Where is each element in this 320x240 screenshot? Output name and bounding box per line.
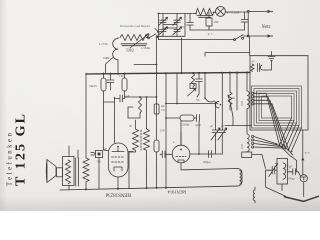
capacitor C5 bbox=[241, 12, 248, 30]
svg-text:μF: μF bbox=[221, 125, 224, 128]
coil L2 can bbox=[184, 169, 242, 187]
mains lead bottom bbox=[249, 35, 270, 37]
loop antenna turn 1 bbox=[252, 86, 302, 128]
svg-text:μμF: μμF bbox=[125, 95, 130, 98]
coil L6 bottom bbox=[253, 187, 255, 203]
wire bottom link bbox=[190, 29, 245, 31]
coil L5 bbox=[283, 163, 286, 179]
svg-text:50kΩ: 50kΩ bbox=[126, 49, 134, 53]
earth symbol bbox=[284, 196, 318, 201]
svg-text:0,05: 0,05 bbox=[241, 144, 244, 149]
tube V2 cathode bbox=[114, 167, 122, 171]
capacitor C12 bbox=[209, 151, 212, 158]
coil tap loops L3 bbox=[252, 92, 254, 105]
wire vertical x166 bbox=[165, 73, 167, 188]
note arrow bbox=[155, 29, 159, 33]
wire trimmer to earth bbox=[266, 170, 287, 196]
tube V3 REN1914 envelope bbox=[172, 145, 190, 163]
loop antenna turn 3 bbox=[257, 91, 297, 123]
wire plug to chassis bbox=[249, 37, 251, 56]
output transformer box bbox=[63, 157, 75, 186]
capacitor cathode bypass box bbox=[96, 151, 103, 158]
variable capacitor C3b bbox=[173, 27, 182, 37]
wire R1 leads bbox=[104, 73, 115, 151]
svg-text:Kurzwellen und Bastler: Kurzwellen und Bastler bbox=[119, 24, 151, 28]
wire ground link bbox=[265, 61, 272, 70]
wire grid V3 bbox=[180, 121, 182, 145]
trimpot marks bbox=[188, 84, 197, 97]
svg-text:T 125 GL: T 125 GL bbox=[14, 112, 29, 186]
svg-text:3Ω45: 3Ω45 bbox=[89, 84, 97, 88]
variable capacitor C2 bbox=[159, 14, 168, 26]
tube V3 anode bbox=[180, 132, 182, 145]
output transformer core bbox=[76, 158, 79, 186]
svg-text:1M: 1M bbox=[119, 74, 124, 78]
resistor R2 oval bbox=[122, 78, 127, 91]
IF transformer winding a bbox=[129, 120, 139, 189]
wire V3 anode out bbox=[190, 153, 223, 155]
capacitor C6 bbox=[114, 95, 124, 102]
switch S1 contacts bbox=[146, 34, 159, 40]
capacitor C15 bbox=[288, 169, 301, 177]
chassis box bbox=[250, 56, 308, 130]
svg-text:500: 500 bbox=[97, 161, 102, 164]
wire transformer leads bbox=[69, 146, 78, 190]
resistor R6 oval on x156 bbox=[154, 140, 159, 152]
resistor R5 box bbox=[208, 12, 210, 18]
IF transformer core dashes bbox=[140, 130, 142, 150]
svg-text:REN1914: REN1914 bbox=[167, 190, 186, 195]
tuned circuit box bbox=[277, 159, 288, 185]
wire y52 HT line bbox=[205, 53, 250, 57]
speaker cone bbox=[46, 160, 56, 183]
svg-text:V 7: V 7 bbox=[305, 151, 310, 155]
wire detector bottom bbox=[303, 182, 305, 197]
dial lamp LP1 bbox=[216, 6, 226, 16]
svg-text:Netz: Netz bbox=[261, 25, 271, 30]
svg-text:0,05: 0,05 bbox=[241, 101, 244, 106]
trimmer C11 bbox=[218, 106, 227, 154]
wire chassis stub bbox=[252, 155, 266, 169]
wire left rail bbox=[85, 73, 87, 158]
svg-text:4V: 4V bbox=[252, 61, 255, 64]
coil base box bbox=[242, 152, 252, 158]
resistor R11 zigzag bbox=[228, 73, 232, 110]
IF transformer winding b bbox=[144, 97, 150, 188]
svg-text:V 7: V 7 bbox=[208, 32, 213, 36]
resistor R6b box upper bbox=[154, 104, 159, 114]
capacitor C4 bbox=[187, 14, 194, 31]
wire V3 bottom bbox=[181, 163, 184, 170]
tube V2 anode bbox=[112, 147, 124, 152]
wire R2 leads bbox=[124, 73, 126, 97]
wire vertical x237 bbox=[236, 73, 238, 110]
trimmer C10 bbox=[211, 104, 220, 155]
wire resistor bottom bbox=[85, 182, 87, 190]
svg-text:Telefunken: Telefunken bbox=[7, 131, 14, 186]
detector circle bbox=[300, 175, 307, 182]
resistor R7 zigzag feedback bbox=[139, 97, 142, 113]
loop antenna turn 4 bbox=[259, 94, 294, 121]
wire V2 leads bbox=[118, 152, 133, 189]
variable capacitor C2b bbox=[159, 27, 168, 37]
svg-text:12k: 12k bbox=[161, 105, 166, 108]
wire vertical x156 bbox=[156, 38, 158, 140]
main HT bus bbox=[86, 72, 250, 74]
svg-text:μF: μF bbox=[210, 125, 213, 128]
mains switch S2 bbox=[159, 35, 248, 40]
wire C9 down bbox=[198, 122, 200, 155]
svg-text:13V: 13V bbox=[160, 129, 166, 133]
trimmer C14 bbox=[268, 164, 278, 177]
wire vertical x222 bbox=[221, 73, 223, 106]
wire feedback loop bbox=[125, 97, 157, 118]
coil L2 winding bbox=[240, 171, 242, 185]
wire vertical x181 upper bbox=[181, 38, 183, 73]
wire switch link bbox=[281, 184, 283, 191]
svg-text:500μμ: 500μμ bbox=[203, 160, 211, 164]
resistor R10 zigzag below bus bbox=[192, 73, 195, 88]
coil L4 stack2 bbox=[247, 126, 249, 153]
wire V7 test bbox=[302, 130, 304, 175]
svg-text:500μμ: 500μμ bbox=[288, 178, 295, 181]
capacitor C1 bbox=[107, 73, 114, 90]
wire bottom bus bbox=[60, 186, 237, 190]
svg-text:180: 180 bbox=[214, 20, 219, 24]
wire gang links bbox=[163, 22, 177, 29]
tube V2 grids bbox=[112, 156, 125, 158]
loop antenna turn 5 bbox=[262, 96, 292, 118]
mains plug bar bbox=[247, 12, 249, 37]
resistor R1 oval bbox=[101, 78, 106, 91]
ground symbol bbox=[268, 52, 275, 61]
loop leads to switch bbox=[280, 118, 302, 151]
wire lever to cap bbox=[291, 156, 296, 171]
svg-text:1W: 1W bbox=[161, 109, 165, 112]
junction dots on bus bbox=[103, 71, 249, 74]
svg-text:μF: μF bbox=[289, 166, 292, 169]
resistor cathode zigzag bbox=[83, 158, 89, 182]
wire diagonal feed bbox=[228, 95, 233, 126]
variable capacitor C3 bbox=[173, 14, 182, 26]
svg-text:2k: 2k bbox=[232, 96, 236, 100]
tube V3 cathode bbox=[178, 160, 184, 163]
coil tap loops L4 bbox=[252, 135, 254, 148]
tube V2 RENS1823d envelope bbox=[109, 143, 129, 177]
dropper bars bbox=[197, 16, 212, 18]
wire vertical x177 lower bbox=[176, 73, 178, 104]
svg-text:RENS1823d: RENS1823d bbox=[105, 192, 131, 197]
coil taps L4 bbox=[254, 137, 286, 149]
wire y66 stub bbox=[134, 64, 157, 66]
resistor R4 heater dropper bbox=[196, 9, 214, 16]
capacitor C13 bbox=[196, 73, 203, 97]
output transformer primary winding bbox=[66, 160, 71, 184]
band switch S4 contacts bbox=[276, 143, 293, 152]
coil taps L3 bbox=[254, 93, 289, 149]
mains transformer in box bbox=[251, 64, 266, 72]
jack hook bbox=[215, 101, 219, 107]
loop antenna turn 2 bbox=[254, 89, 299, 126]
potentiometer slider bar bbox=[121, 34, 149, 48]
potentiometer R3 zigzag bbox=[120, 35, 148, 41]
band switch S4 lever bbox=[280, 144, 294, 157]
switch S3 curve bbox=[205, 73, 218, 104]
grid resistor R9 bbox=[166, 117, 180, 119]
capacitor C9 bbox=[194, 115, 200, 122]
svg-text:μμ50: μμ50 bbox=[195, 124, 201, 127]
svg-text:μF: μF bbox=[183, 25, 187, 29]
svg-text:Ta: Ta bbox=[196, 98, 200, 102]
speaker magnet bbox=[57, 168, 63, 177]
tube V3 grid bbox=[176, 156, 186, 158]
oscillator coil L1 bbox=[106, 38, 119, 75]
wire grid lead V2 bbox=[113, 97, 115, 143]
svg-text:I-1736: I-1736 bbox=[99, 42, 108, 46]
svg-text:TuBi: TuBi bbox=[103, 56, 110, 60]
wire y125 bbox=[225, 125, 252, 127]
tuning gang frame bbox=[159, 14, 186, 37]
wire y103 line bbox=[166, 103, 216, 105]
wire top rail bbox=[159, 12, 248, 14]
coil L3 stack1 bbox=[247, 73, 249, 126]
capacitor C16 bbox=[160, 151, 172, 158]
mains lead top bbox=[249, 10, 270, 12]
